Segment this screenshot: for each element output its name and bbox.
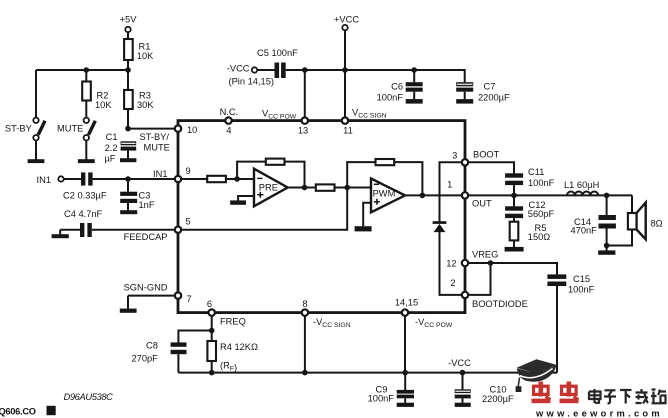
capacitor C3 1nF bbox=[120, 179, 137, 214]
svg-text:12: 12 bbox=[446, 259, 456, 269]
watermark site name glyphs bbox=[589, 389, 666, 404]
wire gnd to C4 bbox=[60, 229, 80, 231]
wire +5V down through R1 R3 to C1 junction bbox=[127, 32, 129, 129]
resistor feedback PWM bbox=[376, 159, 395, 165]
node junction R2 rail bbox=[84, 67, 90, 73]
resistor R5 150ohm bbox=[510, 222, 519, 241]
svg-text:6: 6 bbox=[207, 299, 212, 309]
svg-text:9: 9 bbox=[186, 166, 191, 176]
switch MUTE bbox=[78, 118, 95, 163]
svg-text:8Ω: 8Ω bbox=[651, 219, 663, 229]
svg-text:100nF: 100nF bbox=[368, 393, 395, 403]
svg-text:ST-BY/: ST-BY/ bbox=[140, 132, 170, 142]
svg-text:MUTE: MUTE bbox=[144, 143, 170, 153]
pin 12 bbox=[462, 260, 468, 266]
svg-text:100nF: 100nF bbox=[568, 285, 595, 295]
svg-text:(Pin 14,15): (Pin 14,15) bbox=[229, 76, 274, 86]
node PWM output junction bbox=[420, 193, 426, 199]
resistor R1 bbox=[124, 39, 133, 60]
wire pin14,15 riser bbox=[404, 313, 406, 373]
resistor R4 12K bbox=[207, 341, 216, 361]
ground R5 bbox=[505, 240, 524, 251]
capacitor C14 470nF bbox=[599, 195, 616, 245]
svg-text:PWM: PWM bbox=[373, 189, 396, 199]
svg-text:C8: C8 bbox=[146, 341, 158, 351]
node +5V terminal bbox=[125, 27, 130, 32]
node junction C9 rail bbox=[402, 370, 408, 376]
svg-text:SGN-GND: SGN-GND bbox=[124, 283, 168, 293]
wire VREG to BOOTDIODE and C15 bbox=[465, 263, 557, 295]
node junction pin13 riser bbox=[302, 67, 308, 73]
svg-text:13: 13 bbox=[298, 125, 308, 135]
svg-text:Q606.CO: Q606.CO bbox=[0, 407, 36, 417]
node junction VREG bbox=[488, 260, 494, 266]
svg-text:OUT: OUT bbox=[472, 199, 492, 209]
svg-text:7: 7 bbox=[187, 294, 192, 304]
wire PWM out to pin1 bbox=[405, 194, 465, 196]
svg-text:R4 12KΩ: R4 12KΩ bbox=[220, 342, 258, 352]
node IN1 terminal bbox=[58, 176, 63, 181]
capacitor C9 100nF bbox=[397, 373, 414, 407]
svg-text:30K: 30K bbox=[137, 100, 154, 110]
node -VCC terminal (Pin 14,15) bbox=[252, 67, 257, 72]
watermark bug characters bbox=[532, 382, 579, 404]
svg-text:470nF: 470nF bbox=[571, 226, 598, 236]
svg-text:5: 5 bbox=[186, 217, 191, 227]
svg-text:C1: C1 bbox=[106, 132, 118, 142]
op-amp U1 PRE bbox=[254, 169, 288, 207]
svg-text:2: 2 bbox=[450, 278, 455, 288]
resistor R3 bbox=[124, 90, 133, 109]
node PWM input junction bbox=[344, 185, 350, 191]
node +VCC terminal bbox=[342, 25, 347, 30]
svg-text:C5 100nF: C5 100nF bbox=[257, 48, 298, 58]
capacitor C4 4.7nF bbox=[80, 223, 84, 237]
svg-text:C7: C7 bbox=[484, 82, 496, 92]
svg-text:1: 1 bbox=[447, 180, 452, 190]
pin 3 bbox=[462, 159, 468, 165]
pin 14,15 bbox=[402, 309, 408, 315]
svg-text:C2 0.33µF: C2 0.33µF bbox=[63, 191, 107, 201]
pin 11 bbox=[342, 117, 348, 123]
svg-text:BOOT: BOOT bbox=[473, 150, 500, 160]
svg-text:C4 4.7nF: C4 4.7nF bbox=[64, 209, 103, 219]
node junction R1 R3 rail bbox=[125, 67, 131, 73]
svg-text:8: 8 bbox=[302, 299, 307, 309]
svg-text:560pF: 560pF bbox=[528, 209, 555, 219]
svg-text:+5V: +5V bbox=[120, 15, 138, 25]
node junction C11 C12 on OUT bbox=[511, 193, 517, 199]
wire speaker bottom return bbox=[607, 230, 632, 246]
svg-text:C6: C6 bbox=[391, 82, 403, 92]
node junction C6 bbox=[411, 67, 417, 73]
capacitor C7 2200uF bbox=[456, 82, 473, 103]
pin 5 bbox=[175, 227, 181, 233]
watermark graduation cap bbox=[516, 359, 557, 392]
svg-text:4: 4 bbox=[226, 125, 231, 135]
capacitor C8 270pF bbox=[171, 342, 187, 372]
svg-text:ST-BY: ST-BY bbox=[5, 124, 32, 134]
svg-text:IN1: IN1 bbox=[37, 175, 51, 185]
pin 6 bbox=[209, 309, 215, 315]
wire +VCC down to pin11 bbox=[344, 30, 346, 120]
node PRE output junction bbox=[302, 185, 308, 191]
wire OUT net bbox=[465, 195, 632, 213]
svg-text:10: 10 bbox=[187, 125, 197, 135]
wire C1 junction to pin10 bbox=[128, 128, 178, 130]
capacitor C5 100nF bbox=[275, 63, 280, 79]
ground SGN-GND bbox=[120, 309, 137, 313]
svg-text:R2: R2 bbox=[97, 90, 109, 100]
svg-text:3: 3 bbox=[452, 151, 457, 161]
op-amp U2 PWM bbox=[371, 179, 405, 213]
resistor feedback PRE bbox=[266, 159, 285, 165]
capacitor C10 2200uF bbox=[455, 373, 471, 407]
ground PRE + input bbox=[230, 196, 254, 205]
wire IN1 to C2 bbox=[64, 178, 81, 180]
svg-text:IN1: IN1 bbox=[153, 169, 167, 179]
wire PRE out to PWM in bbox=[288, 187, 371, 189]
svg-text:100nF: 100nF bbox=[377, 93, 404, 103]
wire PWM feedback loop bbox=[347, 162, 422, 195]
wire BOOT to C11 bbox=[465, 162, 514, 173]
pin 1 bbox=[462, 192, 468, 198]
svg-text:2.2: 2.2 bbox=[105, 143, 118, 153]
svg-text:FREQ: FREQ bbox=[220, 317, 246, 327]
svg-text:2200µF: 2200µF bbox=[478, 93, 510, 103]
svg-text:150Ω: 150Ω bbox=[528, 232, 551, 242]
capacitor C12 560pF bbox=[505, 195, 523, 221]
svg-text:N.C.: N.C. bbox=[220, 107, 239, 117]
capacitor C2 0.33uF bbox=[81, 172, 85, 185]
node junction pin8 rail bbox=[302, 370, 308, 376]
capacitor C6 100nF bbox=[406, 70, 423, 104]
resistor interstage bbox=[316, 184, 335, 190]
wire SGN-GND to pin7 bbox=[128, 296, 178, 309]
svg-text:11: 11 bbox=[343, 125, 353, 135]
wire pin13 riser bbox=[304, 70, 306, 121]
svg-text:2200µF: 2200µF bbox=[482, 394, 514, 404]
resistor R2 bbox=[82, 82, 91, 101]
node junction C1 bbox=[125, 126, 131, 132]
pin 10 bbox=[175, 125, 181, 131]
wire PRE feedback loop bbox=[237, 162, 304, 188]
ground speaker bbox=[598, 246, 615, 255]
node PRE input junction bbox=[234, 176, 240, 182]
svg-text:C15: C15 bbox=[573, 274, 590, 284]
node junction C10 rail bbox=[460, 370, 466, 376]
speaker LS 8ohm bbox=[628, 203, 646, 240]
svg-text:C10: C10 bbox=[490, 385, 507, 395]
capacitor C11 100nF bbox=[505, 173, 523, 195]
wire pin6 FREQ branch bbox=[178, 313, 211, 373]
ground C4 bbox=[52, 230, 69, 239]
wire +VCC rail y70 bbox=[286, 70, 465, 82]
wire bootstrap diode branch bbox=[440, 162, 466, 295]
inductor L1 60uH bbox=[567, 191, 598, 195]
wire bias rail y70 bbox=[36, 70, 128, 120]
svg-text:MUTE: MUTE bbox=[57, 124, 83, 134]
wire C4 to pin5 FEEDCAP bbox=[92, 229, 178, 231]
node junction R4 rail bbox=[209, 370, 215, 376]
node junction C14 bottom bbox=[604, 243, 610, 249]
diode bootstrap bbox=[433, 221, 447, 232]
svg-text:R3: R3 bbox=[139, 90, 151, 100]
wire C2 to pin9 bbox=[93, 178, 178, 180]
wire pin5 FEEDCAP internal bbox=[178, 188, 347, 230]
svg-text:www.eeworm.com: www.eeworm.com bbox=[535, 409, 663, 418]
ground PWM + input bbox=[355, 203, 372, 232]
wire -VCC to C5 bbox=[257, 69, 274, 71]
pin 4 bbox=[225, 117, 231, 123]
capacitor C1 2.2uF bbox=[120, 141, 136, 162]
svg-text:VREG: VREG bbox=[472, 250, 498, 260]
resistor input R PRE bbox=[207, 176, 226, 182]
svg-text:FEEDCAP: FEEDCAP bbox=[124, 232, 168, 242]
pin 2 bbox=[462, 292, 468, 298]
switch ST-BY bbox=[28, 118, 45, 163]
svg-text:270pF: 270pF bbox=[132, 354, 159, 364]
wire -VCC bottom rail bbox=[178, 372, 557, 374]
svg-text:µF: µF bbox=[104, 154, 115, 164]
svg-text:10K: 10K bbox=[95, 100, 112, 110]
svg-text:C11: C11 bbox=[528, 167, 544, 177]
pin 7 bbox=[175, 292, 181, 298]
svg-text:PRE: PRE bbox=[259, 182, 278, 192]
svg-text:100nF: 100nF bbox=[528, 178, 555, 188]
pin 13 bbox=[302, 117, 308, 123]
svg-text:+VCC: +VCC bbox=[334, 15, 359, 25]
op-amp block IC outline bbox=[178, 121, 465, 313]
svg-text:1nF: 1nF bbox=[139, 200, 155, 210]
pin 8 bbox=[302, 309, 308, 315]
svg-text:-VCC: -VCC bbox=[227, 64, 250, 74]
svg-text:10K: 10K bbox=[137, 51, 154, 61]
node junction C3 bbox=[125, 176, 131, 182]
svg-text:D96AU538C: D96AU538C bbox=[64, 392, 114, 402]
svg-text:L1 60µH: L1 60µH bbox=[564, 180, 599, 190]
capacitor C15 100nF bbox=[547, 274, 566, 372]
svg-text:14,15: 14,15 bbox=[395, 298, 418, 308]
pin 9 bbox=[175, 176, 181, 182]
svg-text:BOOTDIODE: BOOTDIODE bbox=[472, 299, 528, 309]
node junction +VCC bbox=[342, 67, 348, 73]
node junction FREQ bbox=[209, 328, 215, 334]
svg-text:-VCC: -VCC bbox=[448, 358, 471, 368]
wire pin9 input to PRE bbox=[178, 178, 254, 180]
node junction L1 C14 bbox=[604, 193, 610, 199]
wire pin8 riser bbox=[304, 313, 306, 373]
